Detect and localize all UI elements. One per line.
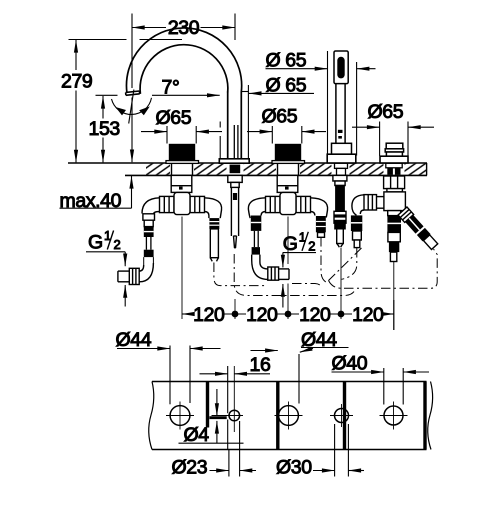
- svg-text:153: 153: [89, 118, 120, 140]
- diverter middle outlet: [387, 211, 401, 262]
- handshower base and escutcheon: [332, 143, 352, 154]
- valve 2 handle above deck (black): [275, 144, 301, 161]
- thick section lines: [208, 382, 426, 450]
- svg-text:120: 120: [352, 304, 384, 326]
- deck hatched mounting surface: [68, 163, 427, 175]
- svg-text:2: 2: [114, 237, 121, 252]
- handshower hose hook: [342, 248, 357, 279]
- svg-text:Ø 65: Ø 65: [266, 75, 307, 97]
- svg-text:120: 120: [299, 304, 331, 326]
- dimension D44 hole1: [117, 346, 221, 405]
- svg-text:230: 230: [168, 17, 200, 39]
- svg-text:Ø 65: Ø 65: [266, 50, 307, 72]
- svg-text:G: G: [88, 232, 103, 254]
- svg-text:Ø65: Ø65: [262, 106, 298, 128]
- dimension D23: [210, 421, 257, 477]
- valve1 centerline: [181, 217, 183, 320]
- dimension D65 handshower (leader): [266, 51, 376, 156]
- dimension 153: [102, 96, 104, 162]
- diverter right outlet 45deg hose: [398, 207, 439, 251]
- dimension chain line y=131.6 with outside arrows: [141, 122, 434, 156]
- valve 2 below deck assembly: [266, 175, 311, 214]
- svg-text:max.40: max.40: [60, 190, 122, 212]
- dimension 16: [200, 366, 271, 449]
- riser supply route: [234, 254, 355, 296]
- G 1/2 elbow outlet right (valve2): [252, 260, 289, 280]
- svg-text:Ø44: Ø44: [301, 329, 337, 351]
- svg-text:Ø44: Ø44: [116, 329, 152, 351]
- handshower head: [327, 51, 356, 163]
- diverter handle above deck: [380, 143, 408, 163]
- valve1 left hose collars: [144, 227, 154, 265]
- spout tip (aerator, tilted 7 deg): [126, 91, 140, 95]
- hole center crosses: [166, 366, 408, 432]
- valve2 to diverter route: [321, 237, 328, 283]
- svg-text:2: 2: [308, 238, 315, 253]
- label G 1/2 left: [86, 252, 125, 307]
- flexible hose routing (dash-dot) valve1 right: [214, 237, 437, 296]
- svg-text:Ø30: Ø30: [276, 457, 312, 479]
- handshower centerline: [340, 248, 342, 319]
- valve2 centerline: [287, 217, 289, 265]
- svg-text:16: 16: [250, 354, 271, 376]
- valve 1 below deck assembly: [160, 175, 205, 214]
- diverter escutcheon plate: [380, 156, 408, 163]
- handshower handle: [335, 84, 337, 144]
- dimension 279: [69, 40, 183, 163]
- diverter centerline: [393, 262, 395, 330]
- dimension 230: [132, 14, 235, 163]
- angle 7 deg annotation: [96, 90, 249, 124]
- svg-text:Ø40: Ø40: [332, 352, 368, 374]
- tub rim band: [149, 382, 433, 450]
- dimension D40: [332, 368, 430, 405]
- valve 1 handle above deck (black): [169, 144, 195, 161]
- svg-text:Ø4: Ø4: [184, 424, 210, 446]
- label G 1/2 right: [283, 253, 316, 308]
- dimension D30: [313, 424, 364, 477]
- hole circles: [170, 406, 403, 426]
- svg-text:Ø65: Ø65: [368, 101, 404, 123]
- svg-text:120: 120: [246, 304, 278, 326]
- diverter below deck: [364, 176, 405, 211]
- G 1/2 elbow outlet left: [118, 263, 153, 285]
- svg-text:279: 279: [61, 71, 92, 93]
- diverter left outlet elbow and hose: [351, 195, 364, 248]
- spout (C-shaped arc): [126, 28, 241, 159]
- svg-text:Ø23: Ø23: [172, 457, 208, 479]
- svg-text:120: 120: [193, 304, 225, 326]
- dimension D44 hole3: [251, 348, 349, 404]
- valve1 right elbow and hose: [205, 198, 222, 261]
- valve2 right elbow and short hose: [311, 198, 328, 238]
- handshower below deck: [333, 175, 347, 247]
- svg-text:Ø65: Ø65: [156, 107, 192, 129]
- riser supply below deck: [228, 175, 242, 248]
- valve1 left elbow: [142, 198, 160, 227]
- svg-text:G: G: [283, 233, 298, 255]
- dimension D4 small hole: [179, 389, 244, 443]
- dimension row 120x4: [182, 300, 394, 330]
- valve2 left elbow: [248, 198, 265, 262]
- node dots: [232, 311, 239, 318]
- svg-text:7°: 7°: [162, 77, 180, 99]
- riser escutcheon plate: [219, 159, 249, 163]
- dimension D65 spout base (leader): [220, 85, 314, 159]
- riser through-deck shank (black): [230, 165, 241, 174]
- dimension max.40: [60, 176, 132, 208]
